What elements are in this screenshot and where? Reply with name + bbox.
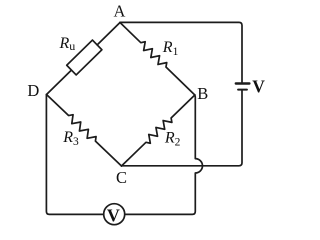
- wire B down with hop over C-battery wire, to voltmeter: [125, 95, 202, 214]
- resistor R2: [119, 92, 197, 168]
- svg-text:A: A: [114, 2, 126, 21]
- svg-text:R2: R2: [164, 129, 181, 148]
- svg-text:V: V: [107, 206, 120, 226]
- svg-text:B: B: [197, 84, 208, 103]
- svg-text:R3: R3: [62, 129, 79, 148]
- resistor Ru box: [67, 40, 102, 75]
- wire A to battery top (top-right loop): [120, 22, 242, 82]
- svg-text:R1: R1: [162, 39, 179, 58]
- resistor R1: [117, 20, 197, 98]
- svg-text:C: C: [116, 168, 127, 187]
- voltmeter M1: [104, 204, 125, 225]
- svg-text:D: D: [27, 81, 39, 100]
- resistor R3: [44, 92, 124, 169]
- svg-text:V: V: [252, 76, 265, 96]
- battery V1 short plate: [238, 89, 247, 91]
- wire D to Ru: [47, 70, 72, 94]
- battery V1 long plate: [236, 82, 250, 84]
- wire voltmeter to D: [46, 95, 103, 215]
- wire battery bottom to node C: [122, 91, 243, 166]
- svg-text:Ru: Ru: [59, 35, 76, 53]
- wire Ru to A: [97, 23, 120, 45]
